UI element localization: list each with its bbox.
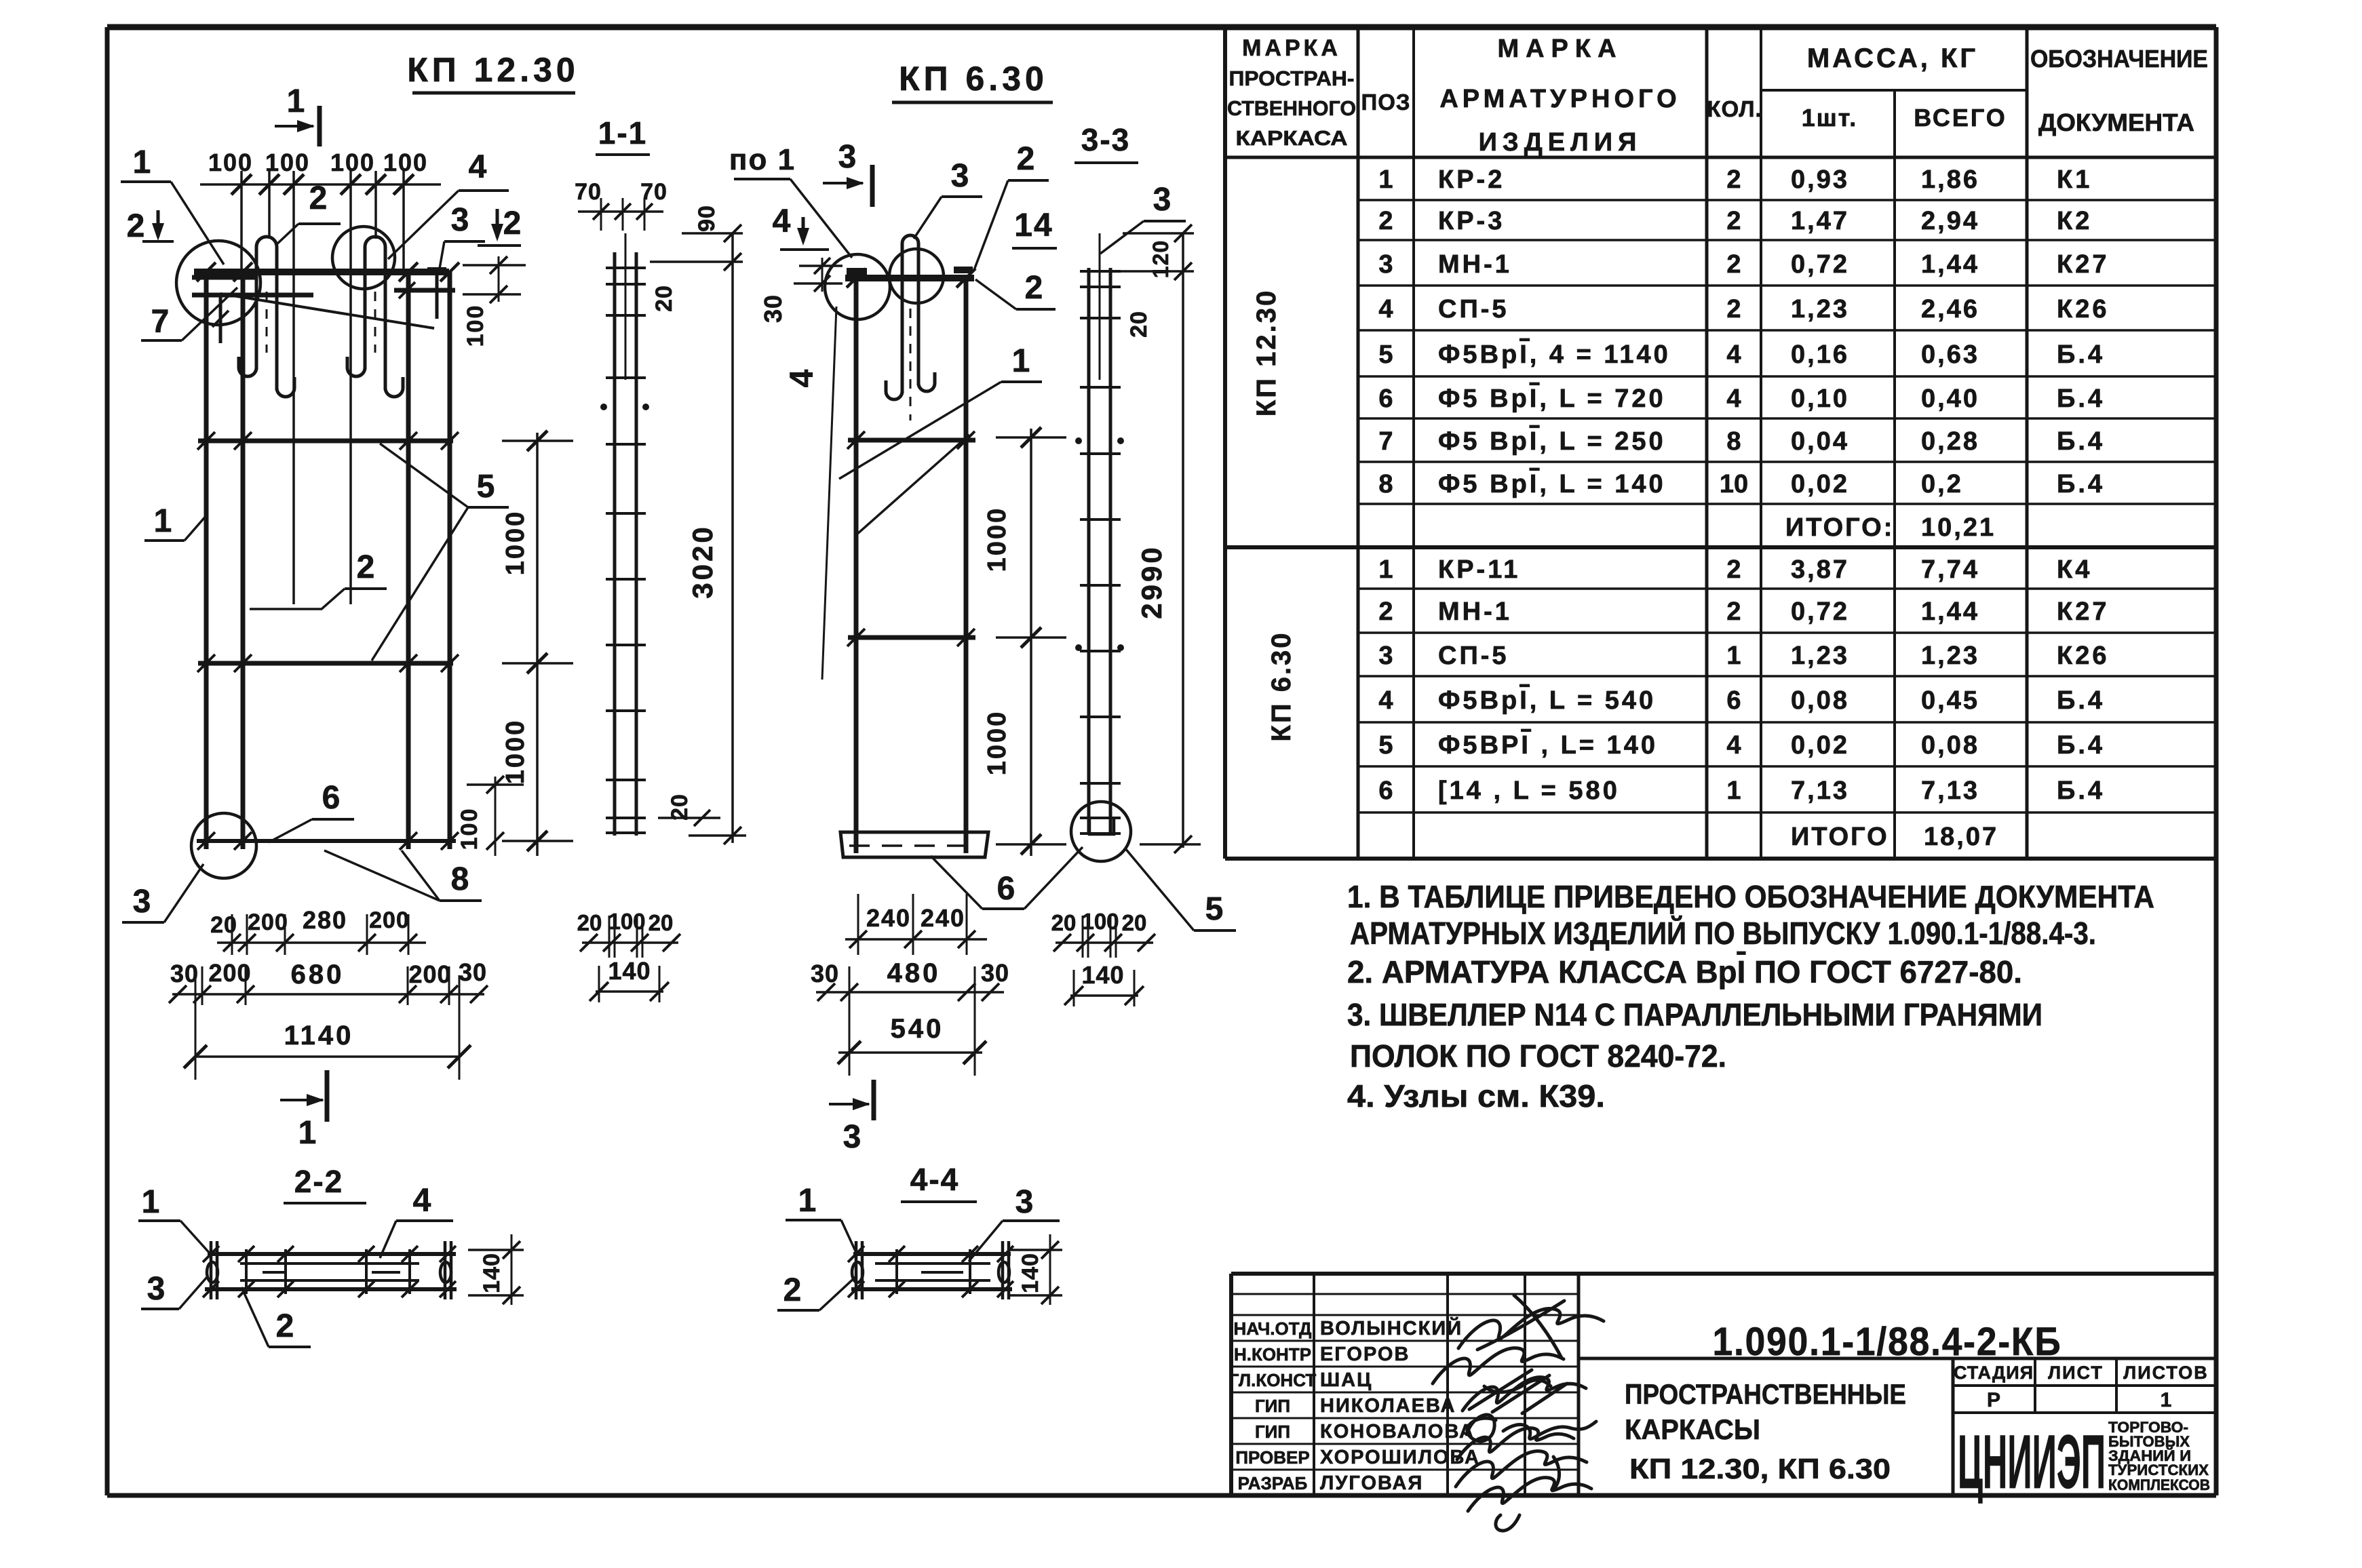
svg-text:2: 2: [276, 1308, 294, 1344]
svg-text:КР-3: КР-3: [1438, 207, 1505, 235]
svg-text:140: 140: [479, 1253, 505, 1293]
title block: doc number cell: [1579, 1357, 2216, 1360]
node circle C (bottom left): [191, 813, 256, 878]
svg-text:ИТОГО:: ИТОГО:: [1785, 513, 1894, 542]
svg-text:НАЧ.ОТД: НАЧ.ОТД: [1233, 1318, 1312, 1339]
anchor МН-1 right: [394, 288, 455, 293]
svg-text:0,72: 0,72: [1791, 250, 1849, 279]
svg-text:3: 3: [1015, 1184, 1034, 1220]
dim 20 (1-1): [650, 260, 743, 263]
svg-text:1: 1: [1378, 165, 1393, 194]
svg-text:Б.4: Б.4: [2057, 686, 2105, 715]
dim 140 (1-1): [596, 990, 663, 993]
svg-text:1: 1: [1378, 555, 1393, 584]
svg-text:3020: 3020: [686, 524, 718, 598]
svg-text:1,23: 1,23: [1921, 642, 1979, 670]
dim chain 20/100/20 (1-1): [582, 941, 678, 944]
svg-text:МАССА, КГ: МАССА, КГ: [1807, 43, 1978, 73]
svg-text:К4: К4: [2057, 555, 2092, 584]
dim 20 (3-3): [1118, 270, 1194, 273]
svg-text:ЦНИИЭП: ЦНИИЭП: [1958, 1419, 2106, 1504]
КП 6.30 top plate (СП-5): [845, 275, 974, 281]
table: specification grid: [1223, 27, 1227, 859]
svg-text:1,44: 1,44: [1921, 597, 1979, 626]
svg-text:МН-1: МН-1: [1438, 597, 1512, 626]
svg-text:7: 7: [151, 304, 170, 340]
svg-text:2: 2: [1025, 270, 1043, 306]
svg-text:2: 2: [1726, 597, 1741, 626]
svg-text:ПОЗ: ПОЗ: [1361, 90, 1410, 115]
svg-text:3: 3: [133, 884, 151, 920]
svg-text:СТАДИЯ: СТАДИЯ: [1954, 1363, 2034, 1383]
dim 1140: [195, 1055, 459, 1058]
svg-text:3: 3: [1153, 182, 1172, 218]
svg-text:140: 140: [1081, 961, 1124, 989]
svg-text:20: 20: [1122, 910, 1147, 935]
svg-text:1,44: 1,44: [1921, 250, 1979, 279]
svg-text:ГИП: ГИП: [1255, 1422, 1290, 1442]
section mark 1 (bottom): [280, 1099, 323, 1101]
svg-text:Н.КОНТР: Н.КОНТР: [1234, 1344, 1311, 1365]
dim 2990: [1182, 233, 1184, 848]
svg-text:0,72: 0,72: [1791, 597, 1849, 626]
svg-text:20: 20: [210, 912, 237, 938]
svg-text:Ф5ВрI, L = 540: Ф5ВрI, L = 540: [1438, 686, 1656, 715]
svg-text:ГЛ.КОНСТ: ГЛ.КОНСТ: [1229, 1370, 1317, 1390]
node circle F (3-3 bottom): [1071, 802, 1131, 861]
longitudinal bar left inner: [241, 272, 246, 849]
svg-text:2990: 2990: [1136, 545, 1167, 619]
svg-text:КП 12.30, КП 6.30: КП 12.30, КП 6.30: [1629, 1453, 1891, 1485]
svg-text:К1: К1: [2057, 165, 2092, 194]
longitudinal bar right outer: [448, 272, 452, 849]
svg-text:1,23: 1,23: [1791, 295, 1849, 324]
svg-text:1,23: 1,23: [1791, 642, 1849, 670]
svg-text:1: 1: [154, 503, 172, 539]
svg-text:Б.4: Б.4: [2057, 427, 2105, 456]
svg-text:КП 6.30: КП 6.30: [899, 60, 1048, 98]
node circle A (left top): [176, 241, 260, 325]
svg-text:6: 6: [997, 871, 1015, 907]
svg-text:2-2: 2-2: [294, 1164, 343, 1199]
svg-text:0,63: 0,63: [1921, 340, 1979, 369]
svg-text:4: 4: [773, 203, 791, 239]
svg-text:4-4: 4-4: [910, 1162, 959, 1197]
svg-text:10: 10: [1720, 470, 1748, 498]
4-4 loop ends: [852, 1262, 863, 1282]
3-3 rungs: [1080, 270, 1121, 273]
svg-text:ДОКУМЕНТА: ДОКУМЕНТА: [2038, 109, 2194, 136]
svg-text:0,02: 0,02: [1791, 470, 1849, 498]
svg-text:1шт.: 1шт.: [1802, 104, 1858, 132]
svg-text:3: 3: [951, 158, 969, 194]
hook pin КР-2 right: [365, 237, 385, 247]
vertical wires (pos 5): [240, 171, 243, 272]
longitudinal bar right inner: [406, 272, 411, 849]
svg-text:1: 1: [287, 83, 305, 119]
svg-text:1,86: 1,86: [1921, 165, 1979, 194]
svg-text:30: 30: [759, 294, 787, 323]
2-2 inner verticals: [245, 1249, 248, 1294]
svg-text:0,2: 0,2: [1921, 470, 1963, 498]
dim chain 30/480/30: [816, 991, 1004, 994]
КП 6.30 bar left (КР-11): [854, 278, 859, 853]
svg-text:100: 100: [457, 808, 482, 850]
svg-text:ПРОСТРАНСТВЕННЫЕ: ПРОСТРАНСТВЕННЫЕ: [1625, 1378, 1906, 1410]
dim 120 (3-3): [1123, 232, 1194, 235]
svg-text:0,16: 0,16: [1791, 340, 1849, 369]
dim 70/70 (1-1 top): [578, 210, 663, 213]
svg-text:1. В ТАБЛИЦЕ ПРИВЕДЕНО ОБОЗНАЧ: 1. В ТАБЛИЦЕ ПРИВЕДЕНО ОБОЗНАЧЕНИЕ ДОКУМ…: [1347, 879, 2154, 914]
svg-text:7: 7: [1378, 427, 1393, 456]
hook pin МН-1 (КП 6.30): [902, 235, 918, 243]
svg-text:100: 100: [265, 149, 310, 176]
svg-text:0,08: 0,08: [1921, 731, 1979, 760]
dim chain 20/200/280/200: [217, 941, 426, 944]
2-2 end bars: [210, 1241, 213, 1299]
svg-text:20: 20: [1051, 910, 1077, 935]
svg-text:20: 20: [651, 285, 677, 312]
hook pin КР-2 left: [256, 237, 277, 247]
svg-text:70: 70: [640, 179, 667, 205]
pin СП-5 right (pos 3): [427, 267, 446, 274]
svg-text:30: 30: [811, 960, 839, 987]
svg-text:2: 2: [1726, 555, 1741, 584]
svg-text:540: 540: [891, 1014, 944, 1044]
svg-text:0,93: 0,93: [1791, 165, 1849, 194]
dim 140 (3-3): [1070, 994, 1138, 997]
dim 100 (top right): [463, 264, 526, 267]
svg-text:2: 2: [503, 205, 522, 241]
svg-text:ПОЛОК ПО ГОСТ 8240-72.: ПОЛОК ПО ГОСТ 8240-72.: [1350, 1038, 1726, 1074]
svg-text:1000: 1000: [983, 710, 1011, 776]
signature squiggles: [1458, 1295, 1604, 1358]
dim chain 30/200/680/200/30: [172, 993, 484, 996]
svg-text:ЕГОРОВ: ЕГОРОВ: [1320, 1344, 1410, 1365]
dim 30 (КП6.30 top left): [799, 264, 843, 267]
svg-text:КП 12.30: КП 12.30: [407, 51, 579, 89]
svg-text:3-3: 3-3: [1081, 122, 1130, 157]
title block: стадия/лист grid: [1952, 1358, 1955, 1495]
svg-text:ОБОЗНАЧЕНИЕ: ОБОЗНАЧЕНИЕ: [2030, 45, 2208, 73]
svg-text:1: 1: [2161, 1389, 2172, 1411]
svg-text:0,10: 0,10: [1791, 385, 1849, 413]
svg-text:280: 280: [303, 906, 347, 934]
svg-text:ШАЦ: ШАЦ: [1320, 1369, 1372, 1391]
svg-text:0,45: 0,45: [1921, 686, 1979, 715]
svg-text:2: 2: [1726, 250, 1741, 279]
longitudinal bar left outer (pos 1): [204, 272, 209, 849]
svg-text:АРМАТУРНОГО: АРМАТУРНОГО: [1439, 85, 1680, 113]
svg-text:200: 200: [248, 909, 288, 935]
svg-text:3: 3: [1378, 250, 1393, 279]
node circle B (right top): [332, 227, 395, 289]
band wire 1 (КП 6.30): [848, 438, 975, 443]
svg-text:4: 4: [1726, 731, 1741, 760]
channel section detail (3-3 bottom): [1089, 818, 1114, 834]
svg-text:ИТОГО: ИТОГО: [1791, 823, 1889, 851]
svg-text:4: 4: [1378, 295, 1393, 324]
svg-text:Ф5ВрI, 4 = 1140: Ф5ВрI, 4 = 1140: [1438, 340, 1671, 369]
svg-text:Ф5 ВрI, L = 140: Ф5 ВрI, L = 140: [1438, 470, 1666, 498]
svg-text:[14 , L = 580: [14 , L = 580: [1438, 777, 1620, 805]
svg-text:ЛИСТОВ: ЛИСТОВ: [2123, 1363, 2209, 1383]
dim 140 (4-4): [1049, 1234, 1051, 1305]
svg-text:2: 2: [1378, 597, 1393, 626]
svg-text:90: 90: [694, 205, 720, 232]
svg-text:100: 100: [608, 909, 645, 934]
svg-text:2. АРМАТУРА КЛАССА ВрI ПО ГОСТ: 2. АРМАТУРА КЛАССА ВрI ПО ГОСТ 6727-80.: [1347, 954, 2022, 989]
svg-text:1,47: 1,47: [1791, 207, 1849, 235]
svg-text:ПРОВЕР: ПРОВЕР: [1235, 1447, 1309, 1468]
svg-text:20: 20: [667, 793, 693, 821]
svg-text:АРМАТУРНЫХ ИЗДЕЛИЙ ПО ВЫПУСКУ: АРМАТУРНЫХ ИЗДЕЛИЙ ПО ВЫПУСКУ 1.090.1-1/…: [1350, 916, 2096, 951]
svg-text:3: 3: [147, 1271, 166, 1307]
svg-text:1000: 1000: [983, 507, 1011, 572]
svg-text:1: 1: [798, 1183, 817, 1219]
cross band wire (y=650): [198, 439, 453, 444]
svg-text:2: 2: [127, 208, 145, 244]
svg-text:Ф5 ВрI, L = 250: Ф5 ВрI, L = 250: [1438, 427, 1666, 456]
svg-text:Б.4: Б.4: [2057, 470, 2105, 498]
svg-text:КОНОВАЛОВА: КОНОВАЛОВА: [1320, 1421, 1475, 1443]
svg-text:4: 4: [1726, 340, 1741, 369]
title block signature grid: [1313, 1274, 1315, 1495]
svg-text:К2: К2: [2057, 207, 2092, 235]
svg-text:Б.4: Б.4: [2057, 731, 2105, 760]
dim line 1000/1000 right: [536, 433, 539, 856]
svg-text:МАРКА: МАРКА: [1242, 35, 1341, 61]
svg-text:30: 30: [981, 959, 1009, 987]
svg-text:4: 4: [784, 369, 820, 387]
svg-text:6: 6: [322, 780, 341, 816]
2-2 assembly frame: [208, 1252, 456, 1256]
svg-text:5: 5: [1205, 891, 1224, 927]
svg-text:1: 1: [1726, 642, 1741, 670]
svg-text:1: 1: [1726, 777, 1741, 805]
top plate (pos 6 wire): [194, 269, 449, 275]
svg-text:К27: К27: [2057, 250, 2109, 279]
svg-text:СП-5: СП-5: [1438, 295, 1509, 324]
svg-text:2: 2: [1017, 141, 1035, 177]
diagonal bar СП-5: [220, 294, 434, 328]
svg-text:5: 5: [1378, 340, 1393, 369]
svg-text:2: 2: [1726, 165, 1741, 194]
dimension chain 100x4 (top): [200, 183, 441, 186]
svg-text:5: 5: [1378, 731, 1393, 760]
svg-text:ВОЛЫНСКИЙ: ВОЛЫНСКИЙ: [1320, 1316, 1463, 1339]
svg-text:Б.4: Б.4: [2057, 340, 2105, 369]
svg-text:240: 240: [866, 904, 911, 932]
bottom wire (pos 6): [197, 839, 456, 843]
svg-text:1: 1: [142, 1184, 160, 1220]
endplate left: [847, 268, 867, 275]
svg-text:К26: К26: [2057, 642, 2109, 670]
svg-text:Р: Р: [1987, 1389, 2000, 1411]
dim chain 240/240: [845, 938, 987, 941]
svg-text:4. Узлы см. К39.: 4. Узлы см. К39.: [1347, 1078, 1605, 1114]
svg-text:К27: К27: [2057, 597, 2109, 626]
svg-text:140: 140: [608, 957, 651, 985]
svg-text:ИЗДЕЛИЯ: ИЗДЕЛИЯ: [1479, 128, 1642, 157]
dim 3020: [731, 233, 734, 843]
svg-text:7,13: 7,13: [1791, 777, 1849, 805]
svg-text:3: 3: [451, 202, 469, 238]
svg-text:140: 140: [1018, 1253, 1043, 1293]
svg-text:30: 30: [459, 958, 487, 986]
svg-text:0,08: 0,08: [1791, 686, 1849, 715]
1-1 rungs: [606, 267, 646, 269]
svg-text:Ф5 ВрI, L = 720: Ф5 ВрI, L = 720: [1438, 385, 1666, 413]
svg-text:РАЗРАБ: РАЗРАБ: [1238, 1473, 1308, 1493]
svg-text:0,02: 0,02: [1791, 731, 1849, 760]
anchor МН-1 left: [192, 275, 256, 280]
svg-text:КР-11: КР-11: [1438, 555, 1520, 584]
svg-text:100: 100: [330, 149, 375, 176]
2-2 loop ends: [207, 1262, 218, 1282]
table: section divider: [1225, 545, 2216, 549]
svg-text:МН-1: МН-1: [1438, 250, 1512, 279]
4-4 end bars: [855, 1241, 858, 1299]
svg-text:200: 200: [208, 959, 251, 987]
cross band wire (y=978): [198, 661, 453, 666]
svg-text:0,28: 0,28: [1921, 427, 1979, 456]
svg-text:20: 20: [648, 910, 674, 935]
svg-text:3: 3: [1378, 642, 1393, 670]
svg-text:КОЛ.: КОЛ.: [1707, 96, 1762, 121]
svg-text:18,07: 18,07: [1924, 823, 1998, 851]
svg-text:К26: К26: [2057, 295, 2109, 324]
svg-text:1140: 1140: [284, 1021, 354, 1051]
svg-text:8: 8: [1378, 470, 1393, 498]
svg-text:1: 1: [133, 144, 151, 180]
node circle D (left): [825, 254, 890, 319]
svg-text:20: 20: [577, 910, 602, 935]
svg-text:по 1: по 1: [729, 143, 796, 176]
svg-text:2: 2: [1378, 207, 1393, 235]
svg-text:4: 4: [413, 1183, 431, 1219]
svg-text:680: 680: [291, 960, 345, 989]
page border frame: [107, 24, 2216, 31]
svg-text:2,94: 2,94: [1921, 207, 1979, 235]
title block frame: [1231, 1272, 2216, 1276]
svg-text:2,46: 2,46: [1921, 295, 1979, 324]
svg-text:2: 2: [1726, 207, 1741, 235]
svg-text:КАРКАСА: КАРКАСА: [1236, 126, 1348, 150]
svg-text:480: 480: [887, 958, 941, 988]
dim 100 (bottom right): [495, 777, 497, 856]
svg-text:7,13: 7,13: [1921, 777, 1979, 805]
svg-text:СТВЕННОГО: СТВЕННОГО: [1227, 96, 1356, 120]
svg-text:14: 14: [1014, 208, 1053, 243]
svg-text:1: 1: [298, 1115, 317, 1151]
svg-text:200: 200: [408, 960, 451, 988]
svg-text:2: 2: [357, 549, 375, 585]
svg-text:0,04: 0,04: [1791, 427, 1849, 456]
footing channel [14: [840, 832, 988, 857]
svg-text:4: 4: [469, 149, 487, 185]
3-3 column bars: [1087, 268, 1091, 834]
svg-text:КОМПЛЕКСОВ: КОМПЛЕКСОВ: [2108, 1476, 2210, 1493]
dim 540: [838, 1051, 982, 1054]
svg-text:1.090.1-1/88.4-2-КБ: 1.090.1-1/88.4-2-КБ: [1713, 1320, 2062, 1364]
svg-text:100: 100: [463, 305, 488, 347]
svg-text:КР-2: КР-2: [1438, 165, 1505, 194]
dim chain 20/100/20 (3-3): [1056, 941, 1153, 944]
svg-text:СП-5: СП-5: [1438, 642, 1509, 670]
band wire 2 (КП 6.30): [848, 635, 975, 640]
4-4 assembly frame: [853, 1252, 1011, 1256]
svg-text:7,74: 7,74: [1921, 555, 1979, 584]
svg-text:3. ШВЕЛЛЕР N14 С ПАРАЛЛЕЛЬНЫМИ: 3. ШВЕЛЛЕР N14 С ПАРАЛЛЕЛЬНЫМИ ГРАНЯМИ: [1347, 997, 2042, 1032]
svg-text:ЛИСТ: ЛИСТ: [2048, 1363, 2104, 1383]
svg-text:МАРКА: МАРКА: [1497, 35, 1623, 63]
svg-text:КП 6.30: КП 6.30: [1266, 631, 1296, 741]
svg-text:Ф5ВРI , L= 140: Ф5ВРI , L= 140: [1438, 731, 1658, 760]
svg-text:6: 6: [1378, 385, 1393, 413]
svg-text:1000: 1000: [501, 510, 530, 576]
svg-text:ХОРОШИЛОВА: ХОРОШИЛОВА: [1320, 1447, 1480, 1468]
svg-text:2: 2: [783, 1272, 802, 1308]
svg-text:8: 8: [1726, 427, 1741, 456]
svg-text:100: 100: [208, 149, 253, 176]
svg-text:100: 100: [1081, 909, 1119, 934]
svg-text:Б.4: Б.4: [2057, 385, 2105, 413]
svg-text:ГИП: ГИП: [1255, 1396, 1290, 1416]
svg-text:ВСЕГО: ВСЕГО: [1914, 104, 2007, 132]
svg-text:3: 3: [838, 139, 857, 175]
svg-text:4: 4: [1726, 385, 1741, 413]
svg-text:2: 2: [1726, 295, 1741, 324]
svg-text:20: 20: [1126, 311, 1152, 338]
svg-text:4: 4: [1378, 686, 1393, 715]
svg-text:100: 100: [383, 149, 428, 176]
dim line 1000/1000 (КП 6.30): [1030, 429, 1032, 856]
svg-text:1-1: 1-1: [598, 115, 647, 151]
dim 140 (2-2): [511, 1234, 513, 1305]
svg-text:3,87: 3,87: [1791, 555, 1849, 584]
section mark 3 (bottom): [829, 1103, 869, 1105]
svg-text:1000: 1000: [501, 719, 530, 785]
svg-text:НИКОЛАЕВА: НИКОЛАЕВА: [1320, 1395, 1456, 1417]
svg-text:200: 200: [369, 907, 410, 933]
svg-text:ПРОСТРАН-: ПРОСТРАН-: [1229, 66, 1355, 90]
КП 6.30 bar right (КР-11): [964, 278, 969, 853]
svg-text:6: 6: [1726, 686, 1741, 715]
svg-text:КП 12.30: КП 12.30: [1252, 289, 1281, 416]
svg-text:8: 8: [451, 861, 469, 897]
svg-text:240: 240: [921, 904, 965, 932]
svg-text:2: 2: [309, 180, 328, 216]
1-1 column bars: [613, 252, 617, 836]
dim 90 (1-1): [682, 232, 743, 235]
svg-text:0,40: 0,40: [1921, 385, 1979, 413]
svg-text:6: 6: [1378, 777, 1393, 805]
svg-text:ЛУГОВАЯ: ЛУГОВАЯ: [1320, 1472, 1423, 1494]
svg-text:70: 70: [575, 179, 602, 205]
node circle E (middle): [889, 249, 944, 303]
4-4 inner verticals: [895, 1249, 898, 1294]
endplate right: [954, 267, 973, 273]
svg-text:3: 3: [843, 1119, 861, 1155]
svg-text:КАРКАСЫ: КАРКАСЫ: [1625, 1413, 1760, 1445]
svg-text:10,21: 10,21: [1921, 513, 1996, 542]
svg-text:5: 5: [477, 469, 495, 505]
svg-text:Б.4: Б.4: [2057, 777, 2105, 805]
svg-text:1: 1: [1012, 343, 1030, 379]
